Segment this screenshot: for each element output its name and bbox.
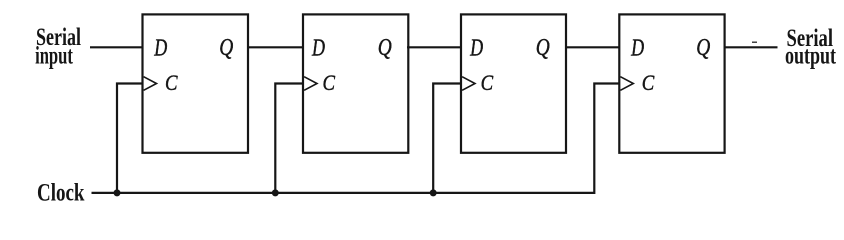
svg-text:C: C (165, 70, 178, 95)
svg-text:Q: Q (219, 34, 233, 61)
svg-text:output: output (785, 43, 836, 70)
svg-text:C: C (642, 70, 655, 95)
svg-text:D: D (630, 34, 644, 61)
svg-text:C: C (323, 70, 336, 95)
svg-text:C: C (481, 70, 494, 95)
svg-text:Q: Q (378, 34, 392, 61)
svg-text:Q: Q (696, 34, 710, 61)
svg-text:Clock: Clock (37, 179, 85, 206)
svg-text:Q: Q (536, 34, 550, 61)
svg-text:input: input (35, 42, 73, 69)
svg-text:D: D (154, 34, 168, 61)
svg-text:D: D (469, 34, 483, 61)
svg-text:D: D (311, 34, 325, 61)
